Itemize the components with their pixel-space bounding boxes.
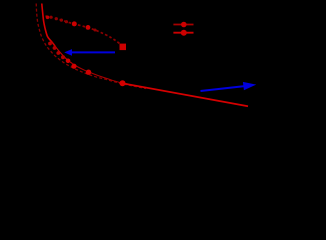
right blue arrow (201, 82, 257, 91)
legend entry 1 marker (181, 22, 187, 28)
lower branch dark dashed curve (36, 4, 146, 89)
square end marker (120, 44, 127, 51)
left blue arrow (64, 49, 115, 56)
lower branch bright solid curve: mid segment (72, 63, 123, 83)
upper branch bright markers (72, 21, 91, 29)
lower branch bright solid curve: steep segment (42, 4, 55, 47)
upper branch dark dashed curve (46, 16, 121, 44)
legend entry 1 line (173, 24, 193, 26)
legend entry 2 line (173, 32, 193, 34)
lower branch circle markers (48, 42, 65, 60)
lower branch bright solid curve: knee segment (52, 42, 73, 64)
legend entry 2 marker (181, 30, 187, 36)
upper branch small dark markers (49, 16, 96, 32)
small bright marker near branch start (46, 15, 50, 19)
lower branch bright solid curve: tail segment (123, 83, 249, 106)
